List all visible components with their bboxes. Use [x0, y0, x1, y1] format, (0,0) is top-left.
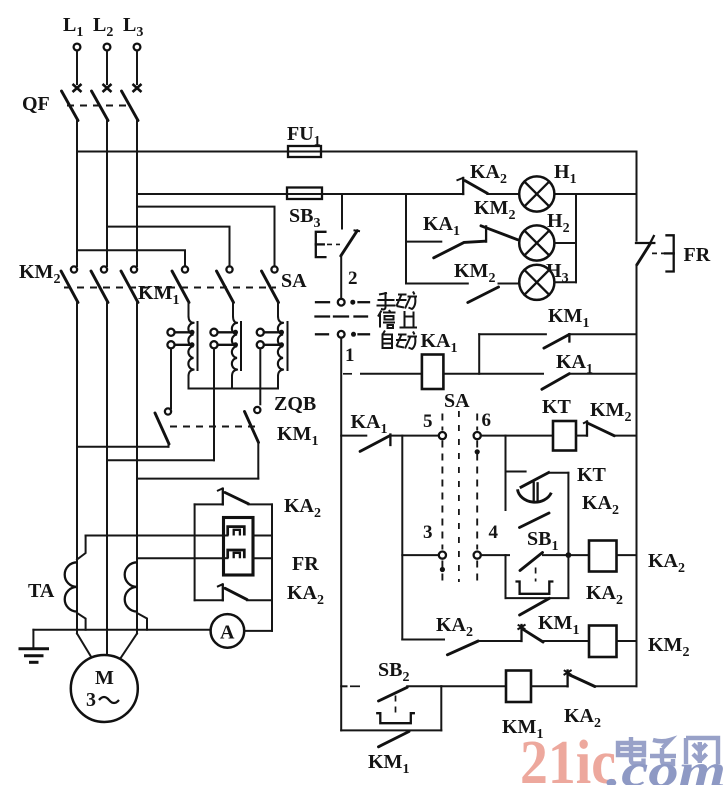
relay coil KA2 — [586, 541, 685, 609]
relay coil KA1 — [343, 330, 543, 389]
switch SA pole — [262, 266, 308, 302]
wire below KM2 pole 2 — [106, 303, 108, 461]
wire L3 column to motor — [136, 479, 138, 634]
contactor KM1 main contacts — [138, 266, 234, 308]
lamp H1 — [519, 161, 576, 212]
svg-text:KT: KT — [542, 396, 572, 418]
contact KA2 interlock NC rung 686 — [564, 670, 637, 731]
svg-text:TA: TA — [28, 580, 55, 602]
wire ZQB tap to L2 column — [107, 459, 214, 461]
wire SA stop-position dashes — [316, 315, 368, 317]
ammeter A — [211, 614, 272, 648]
wire top rail to FU1 — [77, 151, 637, 153]
relay coil KM2 — [589, 626, 689, 661]
wire ground line — [33, 629, 210, 631]
switch SA position contact 1 — [316, 331, 369, 366]
contactor KM1 starting contact left (ZQB) — [155, 393, 318, 449]
contact KA2 shunt top — [195, 488, 321, 521]
contact KM1 parallel — [479, 305, 636, 348]
watermark 电子网 — [618, 737, 718, 764]
svg-text:5: 5 — [423, 411, 433, 432]
wire feed to KM1 pole 2 — [107, 227, 230, 266]
label 停止 — [378, 310, 417, 328]
button SB1 blade over rung — [517, 552, 589, 594]
svg-text:FR: FR — [684, 244, 711, 266]
svg-text:FR: FR — [292, 553, 319, 575]
contact KM1 interlock NC — [518, 612, 590, 642]
wire H2 rung left — [406, 241, 441, 243]
relay coil KT — [542, 396, 587, 451]
wire feed to KM1 pole 1 — [77, 250, 185, 266]
wire L2 column to motor — [106, 460, 108, 655]
contact KA2 shunt bottom — [195, 582, 324, 608]
svg-text:21ic: 21ic — [520, 729, 616, 785]
wire ZQB contact 1 to L1 column — [77, 446, 169, 448]
wire SB1 loop — [506, 555, 569, 615]
wire KA2 loop left — [194, 504, 196, 600]
svg-text:4: 4 — [489, 522, 499, 543]
svg-text:2: 2 — [348, 268, 358, 289]
transformer ZQB unit 3 — [257, 303, 288, 405]
contact KM2 lamp H3 — [454, 260, 519, 303]
fuse FU1 — [287, 123, 321, 157]
motor M — [71, 634, 138, 723]
svg-text:SA: SA — [281, 270, 307, 292]
svg-text:ZQB: ZQB — [274, 393, 316, 415]
relay FR heater element — [224, 518, 320, 576]
contact KA2 lamp H1 — [457, 161, 520, 194]
contact KM2 interlock rung 435 — [583, 399, 637, 436]
wire SA line down — [340, 338, 342, 731]
wire linkage dashes ZQB contacts — [170, 426, 256, 428]
wire below KM2 pole 1 — [76, 303, 78, 447]
switch SA contact 3-4 — [402, 522, 509, 572]
node L3 — [123, 14, 143, 92]
wire feed to KM1 pole 3 — [137, 207, 275, 266]
wire TA1 to FR heater — [86, 535, 224, 537]
contact KT delayed close — [506, 464, 607, 502]
wire KA2 loop right / to ammeter — [271, 504, 273, 631]
wire below KM2 pole 3 — [136, 303, 138, 479]
svg-text:.com: .com — [606, 745, 724, 785]
fuse FU2 — [287, 188, 322, 232]
wire KT branch down — [505, 436, 507, 510]
label 手动 — [377, 292, 418, 310]
wire top rail corner down — [636, 152, 638, 241]
switch SA position contact 2 — [316, 268, 369, 306]
ground — [19, 630, 50, 663]
label 自动 — [383, 331, 418, 350]
wire branch left down — [401, 436, 403, 640]
wire ZQB contact 2 to L3 column — [137, 478, 258, 480]
svg-text:KT: KT — [577, 464, 607, 486]
svg-text:3: 3 — [86, 689, 96, 711]
switch SA contact 5-6 — [423, 390, 553, 454]
wire linkage dashes KM2 row — [64, 287, 276, 289]
wire lamp branch vertical — [405, 194, 407, 284]
contact KA1 auto rung — [341, 411, 438, 451]
relay coil KM1 — [441, 671, 567, 743]
wire L1 column — [76, 121, 78, 267]
wire lamp right vertical — [575, 194, 577, 282]
wire TA2 to FR heater — [137, 557, 224, 559]
contact FR normally-closed — [636, 235, 711, 271]
svg-text:1: 1 — [345, 345, 355, 366]
svg-text:A: A — [220, 622, 235, 644]
transformer ZQB unit 2 — [210, 303, 241, 461]
wire H3 rung left — [406, 283, 468, 285]
contact KM2 lamp H2 — [474, 197, 518, 240]
contact KM1 self-hold SB2 — [341, 686, 441, 777]
current transformer TA unit 2 — [125, 562, 147, 630]
wire KT branch right — [567, 473, 569, 555]
contact SB1 start — [520, 492, 620, 554]
breaker QF — [22, 91, 138, 121]
button SB3 stop — [316, 194, 360, 299]
wire L1 column to motor — [76, 447, 78, 634]
wire control line — [137, 193, 463, 195]
wire parallel branch up — [478, 334, 480, 374]
wire SA linkage dashed verticals — [442, 411, 477, 582]
contactor KM2 main contacts — [19, 261, 138, 303]
svg-text:M: M — [95, 667, 114, 689]
contact KA2 rung KM2 — [402, 614, 521, 655]
button SB2 start — [341, 659, 441, 723]
node L2 — [93, 14, 113, 92]
svg-text:SA: SA — [444, 390, 470, 412]
node L1 — [63, 14, 83, 92]
contact KA1 lamp H2 — [423, 213, 486, 258]
lamp H2 — [519, 210, 576, 261]
transformer ZQB unit 1 — [167, 303, 197, 409]
wire H1 rung right — [554, 193, 636, 195]
contactor KM1 starting contact right (ZQB) — [245, 407, 261, 479]
svg-text:3: 3 — [423, 522, 433, 543]
wire transformer bottom rail — [189, 388, 279, 390]
svg-text:6: 6 — [482, 410, 492, 431]
wire L2 column — [106, 121, 108, 267]
current transformer TA unit 1 — [28, 536, 86, 630]
wire right rail — [636, 265, 638, 686]
contact KA1 self-hold — [542, 351, 637, 389]
wire L3 column — [136, 121, 138, 267]
lamp H3 — [519, 260, 576, 300]
svg-text:QF: QF — [22, 93, 50, 115]
